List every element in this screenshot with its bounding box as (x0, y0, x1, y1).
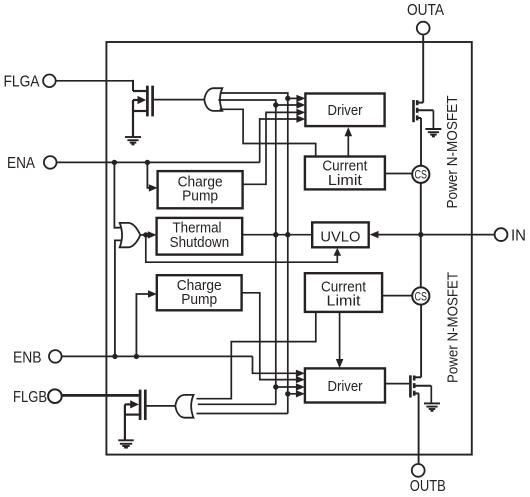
wire FLGB to Q2 drain (62, 394, 139, 397)
svg-text:ENA: ENA (7, 155, 36, 172)
wire arrow2-A into Driver A (276, 104, 298, 106)
current sense CS B (412, 287, 429, 304)
svg-text:Pump: Pump (181, 291, 217, 308)
terminal ENB (13, 349, 62, 366)
terminal FLGA (4, 73, 56, 90)
wire CS A down to IN line (420, 183, 422, 235)
wire FET A source to CS A (420, 118, 422, 166)
wire ENA to Charge Pump A (arrow) (147, 162, 150, 188)
wire CL-B yoke to OR-B input1 (197, 312, 316, 399)
power FET B (410, 375, 431, 397)
wire ENB up to OR input2 (115, 240, 122, 356)
wire arrow1-A into Driver A (288, 97, 298, 99)
block Current Limit B (305, 273, 382, 312)
wire Current Limit A to Driver A (arrow up) (347, 136, 349, 157)
ground FET B (424, 403, 440, 410)
or-gate U2 (FLGA flag OR, faces left) (204, 88, 222, 111)
wire Driver B to FET B gate (385, 383, 410, 385)
block Driver A (305, 94, 384, 127)
wire ENA line (57, 161, 260, 163)
junction dot ENB-OR (112, 354, 117, 359)
block Thermal Shutdown (157, 218, 243, 255)
svg-text:UVLO: UVLO (320, 228, 360, 245)
terminal IN (495, 227, 526, 244)
svg-text:OUTA: OUTA (407, 2, 445, 19)
or-gate U1 (enable OR, faces right) (120, 223, 141, 247)
ground below Q2 (118, 440, 133, 447)
transistor Q2 (FLGB open-drain) (125, 390, 145, 441)
junction dot arrow1-A (285, 96, 290, 101)
wire Q1 gate to OR-A output (154, 99, 205, 101)
ground below Q1 (125, 137, 141, 144)
wire Current Limit B to CS B (382, 295, 412, 297)
wire OR-A input3 (from CL-A yoke) (220, 109, 316, 156)
wire OUTA to FET A drain (422, 35, 424, 102)
svg-text:Shutdown: Shutdown (170, 234, 230, 251)
wire TSD to UVLO (242, 234, 312, 236)
wire ENB to Charge Pump B (arrow) (136, 294, 149, 356)
svg-text:CS: CS (415, 168, 428, 182)
power FET A (414, 100, 434, 122)
block Current Limit A (305, 157, 385, 190)
junction dot IN-CS (418, 232, 423, 237)
node bus4 vertical (287, 98, 289, 413)
wire OR-A input2 (218, 100, 275, 105)
block Charge Pump A (158, 171, 243, 208)
block Driver B (305, 368, 385, 402)
svg-text:FLGB: FLGB (13, 389, 47, 406)
terminal ENA (7, 155, 57, 172)
node bus3 vertical (275, 105, 277, 404)
wire arrow4-B into Driver B (288, 393, 297, 395)
wire FET B body to ground (430, 386, 432, 404)
junction dot ENB-CP (134, 354, 139, 359)
wire ENA down to OR input1 (114, 162, 121, 227)
wire bus3 to OR-B input2 (198, 403, 276, 405)
junction dot OR output (143, 232, 148, 237)
junction dot bus4-TSD (285, 232, 290, 237)
wire enable to UVLO bottom (146, 235, 337, 262)
junction dot arrow2-A (273, 102, 278, 107)
svg-text:Power N-MOSFET: Power N-MOSFET (445, 95, 461, 208)
wire arrow3-B into Driver B (276, 386, 297, 388)
svg-text:Power N-MOSFET: Power N-MOSFET (446, 272, 462, 383)
wire CS B down to FET B drain (420, 305, 422, 378)
block UVLO (312, 222, 369, 247)
terminal OUTB (410, 464, 446, 495)
svg-text:Pump: Pump (182, 188, 218, 205)
wire Current Limit A to CS A (385, 173, 412, 175)
wire IN line with arrow into UVLO (376, 234, 495, 236)
junction dot arrow4-B (285, 391, 290, 396)
svg-text:OUTB: OUTB (410, 478, 446, 495)
svg-text:Driver: Driver (328, 378, 363, 395)
transistor Q1 (FLGA open-drain) (133, 86, 153, 137)
wire ENB riser to Driver B arrow1 (253, 356, 298, 373)
svg-text:CS: CS (415, 289, 428, 303)
wire arrow4-A from ENA (260, 119, 298, 162)
terminal FLGB (13, 389, 62, 406)
wire FLGA to Q1 drain (56, 80, 133, 82)
or-gate U3 (FLGB flag OR, faces left) (175, 395, 193, 418)
svg-text:FLGA: FLGA (4, 73, 41, 90)
svg-text:IN: IN (511, 227, 526, 244)
wire Current Limit B to Driver B (arrow down) (339, 312, 341, 360)
block Charge Pump B (157, 275, 242, 310)
svg-text:Limit: Limit (328, 172, 363, 189)
wire arrow3-A from charge pump A (243, 112, 298, 184)
wire bus4 to OR-B input3 (197, 413, 288, 415)
IC boundary (106, 42, 471, 455)
wire FET B source to OUTB (418, 393, 420, 463)
wire Charge Pump B to Driver B arrow2 (242, 293, 297, 380)
svg-text:ENB: ENB (13, 349, 42, 366)
svg-text:Driver: Driver (328, 102, 363, 119)
wire FET A body to ground (432, 110, 434, 129)
terminal OUTA (407, 2, 445, 35)
wire OR-A input1 (220, 93, 288, 98)
junction dot bus3-TSD (273, 232, 278, 237)
wire OR output to Thermal Shutdown (arrow) (140, 234, 150, 236)
current sense CS A (412, 166, 429, 183)
junction dot ENA-CP (145, 160, 150, 165)
svg-text:Limit: Limit (327, 292, 362, 309)
ground FET A (425, 129, 441, 136)
wire IN dot down to CS B (420, 235, 422, 288)
wire ENB line (62, 355, 253, 357)
wire OR-B output to Q2 gate (146, 405, 176, 407)
junction dot ENA-OR (112, 160, 117, 165)
junction dot arrow3-B (273, 384, 278, 389)
